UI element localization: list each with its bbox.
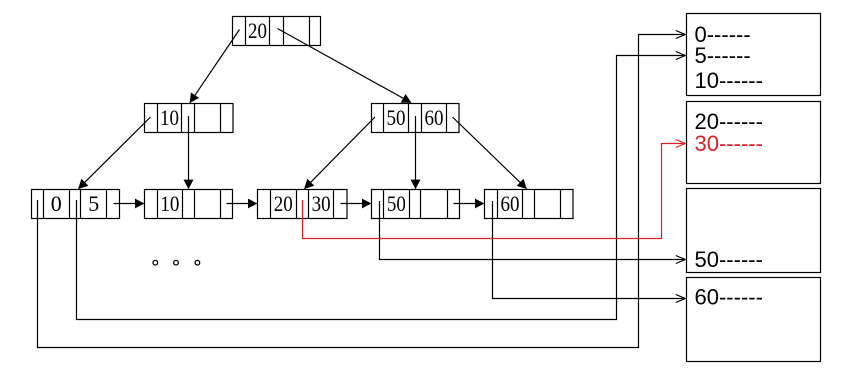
internal node (key 10) box: [145, 104, 234, 133]
svg-text:20: 20: [274, 191, 293, 216]
svg-text:50: 50: [387, 105, 406, 130]
ellipsis circle 2: [174, 260, 179, 265]
record block 4 (60): [687, 278, 821, 362]
wire leaf 0 pointer to record 0: [38, 35, 686, 348]
wire leaf 5 pointer to record 5: [77, 56, 686, 320]
arrow internal 10 to leaf 10: [188, 116, 190, 189]
svg-text:10------: 10------: [695, 68, 763, 93]
arrow internal 50 60 to leaf 50: [415, 116, 417, 189]
arrow root to internal node 50 60: [278, 29, 412, 103]
wire leaf 60 pointer to record 60: [493, 201, 686, 299]
svg-text:60------: 60------: [695, 285, 763, 310]
ellipsis circle 3: [195, 260, 200, 265]
svg-text:60: 60: [501, 191, 520, 216]
svg-text:5------: 5------: [695, 43, 751, 68]
leaf chain arrow 0 5 to 10: [114, 203, 144, 205]
leaf chain arrow 50 to 60: [454, 203, 484, 205]
record block 1 (0,5,10): [687, 14, 821, 96]
svg-text:10: 10: [160, 191, 179, 216]
arrow root to internal node 10: [190, 30, 240, 103]
root node (key 20) box: [233, 17, 321, 46]
ellipsis circle 1: [153, 260, 158, 265]
arrow internal 50 60 to leaf 20 30: [305, 117, 376, 189]
wire leaf 50 pointer to record 50: [380, 201, 686, 260]
wire leaf 30 pointer to record 30 (red): [303, 144, 686, 239]
internal node (keys 50 60) box: [372, 104, 460, 133]
leaf chain arrow 20 30 to 50: [341, 203, 371, 205]
svg-text:50: 50: [387, 191, 406, 216]
leaf node (key 60) box: [485, 190, 574, 219]
leaf node (key 50) box: [372, 190, 460, 219]
svg-text:30------: 30------: [695, 131, 763, 156]
leaf node (key 10) box: [145, 190, 233, 219]
svg-text:20: 20: [248, 18, 267, 43]
svg-text:60: 60: [425, 105, 444, 130]
leaf chain arrow 10 to 20 30: [227, 203, 257, 205]
svg-text:50------: 50------: [695, 247, 763, 272]
svg-text:5: 5: [88, 191, 99, 216]
arrow internal 10 to leaf 0 5: [79, 117, 151, 189]
leaf node (keys 0 5) box: [32, 190, 120, 219]
svg-text:30: 30: [312, 191, 331, 216]
svg-text:0: 0: [51, 191, 62, 216]
arrow internal 50 60 to leaf 60: [453, 117, 527, 189]
record block 3 (50): [687, 189, 821, 273]
leaf node (keys 20 30) box: [258, 190, 348, 219]
record block 2 (20,30): [687, 102, 821, 184]
svg-text:10: 10: [160, 105, 179, 130]
